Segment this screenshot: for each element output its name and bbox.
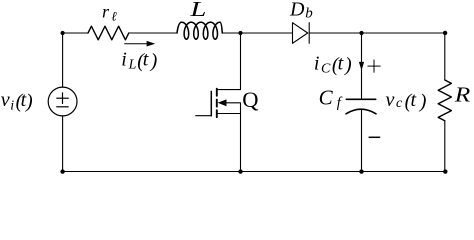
- svg-text:v: v: [386, 89, 395, 111]
- svg-text:f: f: [337, 95, 343, 111]
- svg-text:t: t: [411, 89, 417, 111]
- svg-text:Q: Q: [242, 87, 258, 112]
- svg-text:): ): [150, 50, 158, 72]
- svg-text:i: i: [10, 98, 14, 113]
- svg-text:C: C: [319, 86, 334, 110]
- svg-text:v: v: [1, 89, 10, 111]
- svg-text:i: i: [314, 53, 320, 75]
- svg-text:r: r: [102, 1, 110, 21]
- svg-text:L: L: [189, 0, 206, 21]
- svg-text:R: R: [454, 83, 471, 107]
- svg-text:C: C: [321, 62, 331, 77]
- svg-text:): ): [344, 54, 352, 76]
- svg-text:L: L: [128, 58, 137, 73]
- svg-text:D: D: [289, 0, 305, 21]
- svg-text:b: b: [305, 6, 313, 22]
- svg-text:c: c: [396, 96, 403, 111]
- svg-text:ℓ: ℓ: [111, 8, 117, 23]
- svg-text:t: t: [143, 48, 149, 70]
- svg-text:i: i: [121, 48, 127, 70]
- svg-text:): ): [25, 91, 33, 113]
- svg-text:t: t: [338, 53, 344, 75]
- svg-text:): ): [419, 91, 427, 113]
